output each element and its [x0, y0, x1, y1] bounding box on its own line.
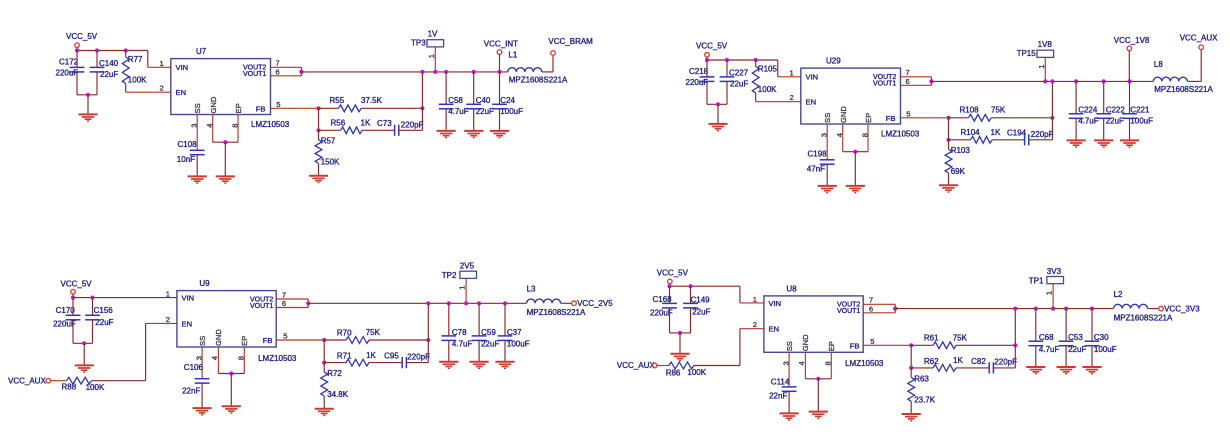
svg-text:VCC_5V: VCC_5V	[657, 269, 689, 278]
junction	[464, 301, 468, 305]
svg-text:VIN: VIN	[176, 63, 189, 72]
svg-text:2: 2	[790, 93, 794, 102]
svg-text:47nF: 47nF	[807, 165, 825, 174]
wire VOUT2 pin 7	[901, 76, 932, 78]
ground SS cap	[780, 413, 799, 420]
wire C156 bottom	[92, 320, 94, 344]
junction	[316, 128, 320, 132]
svg-text:GND: GND	[839, 106, 848, 123]
wire GND pin 4	[212, 115, 214, 143]
capacitor C227	[720, 77, 735, 82]
svg-text:EN: EN	[176, 88, 187, 97]
wire to R70	[324, 339, 346, 341]
svg-text:2: 2	[166, 315, 170, 324]
IC U9 body	[177, 291, 276, 347]
svg-text:220pF: 220pF	[994, 358, 1017, 367]
wire EP pin 8	[237, 115, 239, 143]
wire to C170	[72, 298, 74, 316]
wire R62 to C82	[956, 367, 989, 369]
terminal VCC_5V (Q3)	[71, 290, 76, 295]
junction	[95, 48, 99, 52]
svg-text:VOUT1: VOUT1	[837, 308, 860, 315]
junction	[705, 58, 709, 62]
svg-text:75K: 75K	[366, 328, 381, 337]
svg-text:MPZ1608S221A: MPZ1608S221A	[509, 76, 568, 85]
wire C114 to ground	[788, 391, 790, 413]
wire bus to VIN corner	[147, 51, 149, 68]
terminal VCC_5V (Q4)	[668, 279, 673, 284]
svg-text:220pF: 220pF	[407, 352, 430, 361]
junction	[1127, 79, 1131, 83]
svg-text:R86: R86	[666, 368, 681, 377]
junction	[497, 70, 501, 74]
wire C218 bottom	[706, 81, 708, 104]
capacitor C114	[782, 387, 797, 391]
wire to C221	[1129, 81, 1131, 113]
svg-text:R72: R72	[327, 369, 342, 378]
svg-text:SS: SS	[193, 103, 202, 113]
wire VOUT tie	[894, 304, 896, 313]
resistor R77	[122, 57, 129, 83]
wire C78 to ground	[448, 340, 450, 361]
inductor L1	[508, 68, 542, 72]
junction VOUT node	[306, 301, 310, 305]
junction	[1064, 307, 1068, 311]
wire to C78	[448, 303, 450, 336]
ground input caps	[78, 114, 97, 121]
terminal VCC_BRAM	[551, 51, 556, 56]
svg-text:VCC_1V8: VCC_1V8	[1114, 36, 1150, 45]
wire VOUT tie	[930, 77, 932, 86]
wire GND-EP join	[213, 141, 238, 143]
wire to R62	[911, 367, 933, 369]
wire L2 to terminal	[1148, 308, 1159, 310]
ground C68	[1026, 367, 1045, 374]
wire to C30	[1091, 309, 1093, 342]
wire to ground	[817, 379, 819, 412]
wire GND pin 4	[842, 124, 844, 152]
wire L8 to VCC_AUX	[1187, 80, 1201, 82]
IC U7 body	[171, 59, 271, 115]
wire GND-EP join	[218, 373, 244, 375]
junction	[1090, 307, 1094, 311]
svg-text:L2: L2	[1114, 290, 1123, 299]
wire to R55	[319, 107, 339, 109]
wire to C227	[726, 60, 728, 77]
inductor L8	[1153, 77, 1187, 81]
resistor R86	[669, 362, 694, 369]
svg-text:R108: R108	[960, 106, 980, 115]
wire to R56	[319, 129, 341, 131]
ground GND/EP	[809, 412, 828, 419]
svg-text:LMZ10503: LMZ10503	[258, 354, 297, 363]
junction	[447, 301, 451, 305]
svg-text:7: 7	[906, 68, 910, 77]
svg-text:23.7K: 23.7K	[914, 395, 936, 404]
wire VOUT1 pin 6	[863, 312, 895, 314]
junction	[420, 70, 424, 74]
svg-text:L1: L1	[508, 51, 517, 60]
svg-text:22nF: 22nF	[769, 392, 787, 401]
svg-text:C108: C108	[178, 140, 198, 149]
resistor R56	[341, 127, 363, 134]
wire C221 to ground	[1129, 118, 1131, 140]
svg-text:R88: R88	[62, 382, 77, 391]
svg-text:1: 1	[1037, 65, 1046, 69]
svg-text:VCC_AUX: VCC_AUX	[617, 361, 655, 370]
terminal VCC_INT	[497, 50, 502, 55]
wire output rail	[931, 80, 1153, 82]
ground GND/EP	[216, 176, 235, 183]
svg-text:R57: R57	[321, 137, 336, 146]
test point TP3	[427, 40, 444, 47]
wire cap join	[670, 332, 691, 334]
svg-text:C194: C194	[1007, 129, 1027, 138]
wire VOUT tie	[307, 299, 309, 308]
svg-text:7: 7	[869, 296, 873, 305]
wire TP15 stem	[1044, 57, 1046, 81]
svg-text:VOUT1: VOUT1	[243, 71, 266, 78]
inductor L3	[527, 299, 561, 303]
wire C37 to ground	[504, 340, 506, 361]
wire to ground	[224, 142, 226, 176]
wire to C140	[96, 51, 98, 68]
junction	[1102, 79, 1106, 83]
svg-text:C95: C95	[384, 352, 399, 361]
ground R72	[315, 409, 334, 416]
wire to C149	[690, 286, 692, 303]
capacitor C194	[1025, 134, 1029, 145]
wire VCC_5V stem	[76, 48, 78, 51]
wire C149 bottom	[690, 308, 692, 333]
ground C37	[495, 362, 514, 369]
svg-text:100K: 100K	[86, 383, 105, 392]
svg-text:VCC_INT: VCC_INT	[484, 40, 518, 49]
wire to C224	[1075, 81, 1077, 113]
wire to C40	[473, 72, 475, 104]
svg-text:1: 1	[458, 286, 467, 290]
svg-text:100K: 100K	[758, 85, 777, 94]
junction	[426, 338, 430, 342]
wire to C168	[669, 286, 671, 303]
svg-text:R56: R56	[331, 118, 346, 127]
wire output rail	[301, 71, 507, 73]
wire FB node down	[323, 340, 325, 363]
svg-text:L3: L3	[527, 285, 536, 294]
resistor R63	[908, 377, 915, 401]
capacitor C68	[1028, 341, 1043, 346]
svg-text:LMZ10503: LMZ10503	[845, 359, 884, 368]
svg-text:5: 5	[870, 337, 874, 346]
svg-text:EN: EN	[182, 319, 193, 328]
svg-text:6: 6	[276, 67, 280, 76]
wire C95 to leg	[406, 362, 428, 364]
junction	[426, 301, 430, 305]
junction	[433, 70, 437, 74]
terminal VCC_AUX (Q3)	[46, 378, 51, 383]
wire C73 to leg	[399, 129, 423, 131]
wire to ground	[854, 152, 856, 186]
wire VOUT2 pin 7	[863, 303, 895, 305]
junction	[688, 284, 692, 288]
svg-text:U7: U7	[196, 47, 207, 56]
wire rail drop leg	[427, 303, 429, 362]
wire C172 bottom	[76, 72, 78, 95]
wire rail drop leg	[1051, 81, 1053, 139]
wire C68 to ground	[1035, 346, 1037, 367]
wire to C53	[1065, 309, 1067, 342]
wire VOUT1 pin 6	[276, 307, 308, 309]
wire R105 bottom	[755, 93, 757, 102]
capacitor C59	[472, 336, 487, 341]
inductor L2	[1114, 304, 1148, 308]
svg-text:FB: FB	[263, 336, 273, 345]
svg-text:2V5: 2V5	[460, 262, 475, 271]
svg-text:C198: C198	[808, 150, 828, 159]
wire output rail	[895, 308, 1113, 310]
wire R61 to rail leg	[956, 344, 1015, 346]
wire TP3 stem	[434, 47, 436, 72]
ground C221	[1120, 140, 1139, 147]
resistor R108	[968, 114, 991, 121]
wire R56 to C73	[362, 129, 394, 131]
wire VOUT1 pin 6	[271, 75, 302, 77]
svg-text:TP3: TP3	[411, 39, 426, 48]
resistor R70	[346, 337, 369, 344]
wire to ground	[230, 374, 232, 407]
terminal VCC_AUX	[1199, 45, 1204, 50]
svg-text:10nF: 10nF	[177, 155, 195, 164]
junction	[86, 93, 90, 97]
test point TP1	[1047, 277, 1064, 284]
wire C140 bottom	[96, 72, 98, 95]
svg-text:VCC_5V: VCC_5V	[696, 42, 728, 51]
junction	[1050, 116, 1054, 120]
svg-text:5: 5	[283, 332, 287, 341]
svg-text:SS: SS	[785, 341, 794, 351]
junction	[667, 284, 671, 288]
svg-text:R103: R103	[951, 146, 971, 155]
wire EN pin 2	[756, 101, 801, 103]
ground C24	[490, 131, 509, 138]
wire C170 bottom	[72, 320, 74, 344]
ground GND/EP	[846, 186, 865, 193]
wire VCC_5V bus / VIN	[73, 297, 177, 299]
svg-text:1V8: 1V8	[1038, 40, 1053, 49]
svg-text:220pF: 220pF	[1031, 130, 1054, 139]
svg-text:34.8K: 34.8K	[327, 390, 349, 399]
capacitor C149	[683, 303, 698, 308]
wire FB pin 5	[863, 344, 911, 346]
svg-text:22uF: 22uF	[692, 308, 710, 317]
wire C224 to ground	[1075, 118, 1077, 140]
wire to ground	[87, 95, 89, 114]
junction	[716, 102, 720, 106]
svg-text:R63: R63	[914, 375, 929, 384]
wire to R77	[125, 51, 127, 58]
svg-text:C114: C114	[771, 377, 790, 386]
wire C82 to leg	[993, 367, 1015, 369]
wire to C222	[1103, 81, 1105, 113]
svg-text:TP1: TP1	[1029, 276, 1044, 285]
junction	[90, 296, 94, 300]
terminal VCC_5V (Q2)	[705, 52, 710, 57]
wire VCC_5V bus	[77, 50, 148, 52]
wire GND-EP join	[843, 151, 868, 153]
wire cap join	[77, 94, 97, 96]
svg-text:FB: FB	[886, 114, 896, 123]
junction	[678, 331, 682, 335]
junction	[420, 106, 424, 110]
junction FB node	[316, 106, 320, 110]
wire to C68	[1035, 309, 1037, 342]
svg-text:VCC_AUX: VCC_AUX	[1180, 33, 1218, 42]
svg-text:22nF: 22nF	[182, 386, 200, 395]
svg-text:6: 6	[869, 304, 873, 313]
svg-text:37.5K: 37.5K	[361, 96, 383, 105]
svg-text:GND: GND	[801, 334, 810, 351]
wire to ground	[717, 104, 719, 123]
capacitor C224	[1069, 114, 1084, 119]
svg-text:U29: U29	[826, 57, 841, 66]
wire VCC_5V stem	[706, 57, 708, 60]
junction VOUT node	[929, 79, 933, 83]
svg-text:U9: U9	[199, 279, 210, 288]
svg-text:VOUT1: VOUT1	[250, 303, 273, 310]
svg-text:100K: 100K	[128, 75, 147, 84]
capacitor C95	[402, 357, 406, 368]
svg-text:SS: SS	[823, 113, 832, 123]
ground input caps	[670, 354, 689, 361]
svg-text:C73: C73	[377, 119, 392, 128]
wire C168 bottom	[669, 308, 671, 333]
wire R77 bottom	[125, 83, 127, 92]
wire EP pin 8	[243, 347, 245, 374]
svg-text:VCC_2V5: VCC_2V5	[577, 299, 613, 308]
wire C59 to ground	[478, 340, 480, 361]
ground SS cap	[188, 176, 207, 183]
wire VCC_BRAM stem	[552, 55, 554, 72]
capacitor C156	[85, 315, 100, 320]
svg-text:7: 7	[282, 290, 286, 299]
terminal VCC_AUX (Q4)	[652, 363, 657, 368]
svg-text:1: 1	[160, 59, 164, 68]
wire to C24	[499, 72, 501, 104]
junction	[124, 48, 128, 52]
junction	[1034, 307, 1038, 311]
capacitor C24	[492, 104, 507, 109]
resistor R71	[346, 359, 369, 366]
ground C40	[464, 131, 483, 138]
wire R88 to corner	[92, 380, 146, 382]
resistor R103	[945, 149, 952, 173]
junction FB node	[909, 343, 913, 347]
junction	[754, 58, 758, 62]
resistor R61	[933, 342, 956, 349]
wire cap join	[73, 342, 93, 344]
ground GND/EP	[222, 406, 241, 413]
junction	[1013, 307, 1017, 311]
IC U29 body	[801, 68, 901, 124]
wire L1 to VCC_BRAM	[542, 71, 553, 73]
ground SS cap	[818, 186, 837, 193]
capacitor C198	[820, 160, 835, 164]
svg-text:VIN: VIN	[182, 294, 195, 303]
wire C30 to ground	[1091, 346, 1093, 367]
svg-text:LMZ10503: LMZ10503	[881, 130, 920, 139]
svg-text:75K: 75K	[953, 333, 968, 342]
wire C40 to ground	[473, 109, 475, 131]
capacitor C82	[989, 362, 993, 373]
junction	[1043, 79, 1047, 83]
svg-text:VCC_5V: VCC_5V	[61, 279, 93, 288]
wire to ground	[83, 343, 85, 365]
junction	[853, 150, 857, 154]
wire to C218	[706, 60, 708, 77]
terminal VCC_2V5	[572, 301, 577, 306]
wire R104 to C194	[992, 139, 1024, 141]
ground R57	[309, 176, 328, 183]
capacitor C53	[1059, 341, 1074, 346]
svg-text:100K: 100K	[687, 368, 706, 377]
svg-text:L8: L8	[1154, 60, 1163, 69]
svg-text:R104: R104	[961, 128, 981, 137]
capacitor C73	[395, 125, 399, 136]
junction	[472, 70, 476, 74]
junction	[444, 70, 448, 74]
junction	[75, 48, 79, 52]
wire VIN pin 1	[148, 66, 171, 68]
capacitor C108	[190, 150, 205, 154]
junction	[816, 377, 820, 381]
wire C53 to ground	[1065, 346, 1067, 367]
svg-text:1V: 1V	[428, 30, 438, 39]
svg-text:2: 2	[160, 84, 164, 93]
svg-text:69K: 69K	[951, 167, 966, 176]
wire to R72	[323, 363, 325, 372]
svg-text:1: 1	[1045, 291, 1054, 295]
junction	[477, 301, 481, 305]
junction	[503, 301, 507, 305]
wire VCC_INT stem	[499, 55, 501, 72]
wire FB node down	[910, 345, 912, 368]
wire to R63	[910, 368, 912, 377]
junction	[946, 138, 950, 142]
ground C53	[1057, 367, 1076, 374]
junction	[1050, 79, 1054, 83]
svg-text:VOUT1: VOUT1	[873, 81, 896, 88]
svg-text:220uF: 220uF	[686, 78, 709, 87]
wire FB node down	[948, 118, 950, 140]
wire rail drop leg	[1014, 309, 1016, 368]
svg-text:C172: C172	[59, 57, 79, 66]
svg-text:MPZ1608S221A: MPZ1608S221A	[1154, 85, 1213, 94]
junction	[82, 341, 86, 345]
svg-text:MPZ1608S221A: MPZ1608S221A	[1114, 314, 1173, 323]
terminal VCC_3V3	[1159, 306, 1164, 311]
svg-text:1K: 1K	[953, 356, 963, 365]
wire VOUT1 pin 6	[901, 84, 932, 86]
wire R72 to ground	[323, 396, 325, 409]
svg-text:GND: GND	[214, 329, 223, 346]
test point TP15	[1037, 50, 1054, 57]
junction	[1074, 79, 1078, 83]
svg-text:C82: C82	[971, 357, 986, 366]
junction	[725, 58, 729, 62]
wire to C156	[92, 298, 94, 316]
svg-text:EN: EN	[806, 98, 817, 107]
svg-text:6: 6	[906, 77, 910, 86]
